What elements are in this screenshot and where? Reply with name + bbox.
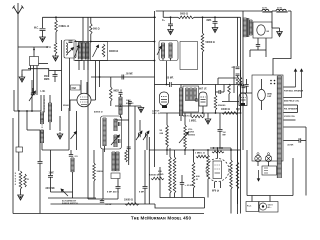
resistor R25 on top <box>196 155 208 158</box>
wire <box>110 77 112 87</box>
svg-text:FOR MAG. SPEAKER: FOR MAG. SPEAKER <box>284 90 304 93</box>
wire top bus left <box>43 16 156 18</box>
svg-text:Tʜᴇ MᴄMᴜʀᴍᴀɴ Mᴏᴅᴇʟ 450: Tʜᴇ MᴄMᴜʀᴍᴀɴ Mᴏᴅᴇʟ 450 <box>131 216 192 221</box>
wire left bus <box>12 118 14 214</box>
wire <box>228 94 230 102</box>
wire <box>104 146 106 152</box>
svg-text:8 MF.: 8 MF. <box>139 192 145 194</box>
svg-text:GB: GB <box>232 67 236 69</box>
svg-text:8MF.: 8MF. <box>207 20 212 22</box>
junction <box>99 76 101 78</box>
r.f. transformer row bottom wire <box>75 60 155 62</box>
wire <box>69 58 71 108</box>
wire <box>20 189 22 194</box>
pilot lamp P1 <box>255 155 261 161</box>
wave trap coil L1 <box>66 43 68 55</box>
capacitor C18 .02 <box>219 113 221 129</box>
secondary coil L10 <box>114 119 117 131</box>
wire <box>61 40 63 111</box>
wire <box>72 172 74 198</box>
label V1 box <box>71 85 81 90</box>
tube V7 6X5 <box>258 89 266 100</box>
coil tail marks <box>162 58 164 61</box>
wire <box>272 27 280 29</box>
wire <box>40 95 42 111</box>
svg-text:8 MF. 450 V.: 8 MF. 450 V. <box>107 191 119 194</box>
svg-text:40000 Ω: 40000 Ω <box>94 111 103 114</box>
capacitor C16 <box>236 67 240 69</box>
wire <box>184 149 186 155</box>
wire <box>219 131 221 148</box>
wire bus <box>82 17 84 41</box>
wire long bus y204 <box>51 203 156 205</box>
resistor R12 <box>228 84 231 94</box>
r.f. coil L2 <box>49 95 51 103</box>
wire <box>261 79 263 89</box>
wire <box>301 140 306 142</box>
wire <box>217 148 219 159</box>
wire screen dropper <box>202 17 204 33</box>
bottom coil L13 <box>116 152 119 171</box>
junction <box>213 147 215 149</box>
dial lamp feed arrows <box>294 69 296 87</box>
coil L16 <box>186 88 189 101</box>
coil L17 <box>190 88 193 101</box>
capacitor osc pad <box>128 102 132 104</box>
lamp socket box <box>262 166 277 175</box>
svg-text:2 MEG. Ω: 2 MEG. Ω <box>59 25 70 28</box>
r.f. coil L7 <box>86 43 89 60</box>
capacitor C8 <box>119 122 120 126</box>
wire plate V1 <box>91 99 96 101</box>
wire <box>217 78 219 85</box>
svg-text:20000: 20000 <box>97 171 104 173</box>
svg-text:10 H.: 10 H. <box>277 8 283 10</box>
tube V4 6Q7 <box>239 93 247 106</box>
junction row <box>14 110 41 112</box>
speaker assembly box <box>252 75 283 161</box>
wire <box>257 162 259 166</box>
wire <box>43 95 45 112</box>
svg-text:VOICE COIL: VOICE COIL <box>284 116 296 118</box>
primary coil L9 <box>103 118 106 146</box>
resistor R6 <box>110 87 113 101</box>
wire stub <box>83 61 85 71</box>
svg-text:1 MF.: 1 MF. <box>49 173 55 175</box>
padder capacitor C3 <box>31 93 35 95</box>
ground C11 <box>168 28 174 35</box>
capacitor osc <box>119 93 123 95</box>
capacitor C2 350 mmf <box>53 75 58 77</box>
switch arrow <box>61 189 68 196</box>
wire <box>139 120 141 131</box>
svg-text:2.5: 2.5 <box>75 156 79 158</box>
svg-text:5000 Ω: 5000 Ω <box>180 13 188 16</box>
wire <box>48 197 96 199</box>
svg-text:1 MEG. Ω: 1 MEG. Ω <box>195 153 205 155</box>
band switch box <box>30 57 39 66</box>
rectifier tube V6 <box>257 25 265 35</box>
ground bottom left <box>18 194 24 200</box>
capacitor C5 <box>69 155 73 157</box>
svg-text:Ω: Ω <box>196 179 198 181</box>
shield can box <box>180 42 198 70</box>
resistor R11 <box>215 85 217 96</box>
wire <box>18 152 20 171</box>
wire <box>242 11 244 150</box>
wire <box>90 17 92 23</box>
svg-text:10000 Ω: 10000 Ω <box>124 200 133 202</box>
capacitor C14 <box>219 90 221 94</box>
wire <box>193 188 195 198</box>
svg-text:0: 0 <box>15 181 17 183</box>
power box <box>259 202 278 213</box>
wire <box>36 66 38 96</box>
wire <box>39 130 41 161</box>
svg-text:C₄: C₄ <box>162 20 165 22</box>
wire <box>59 116 61 131</box>
wire <box>144 188 146 204</box>
wire <box>68 108 70 150</box>
svg-text:10000 Ω: 10000 Ω <box>221 109 230 111</box>
wire <box>215 110 217 113</box>
wire <box>166 147 168 155</box>
wire heater legs <box>214 182 216 189</box>
fuse box <box>246 202 259 212</box>
wire main bottom bus <box>13 213 204 215</box>
switch box left <box>16 147 23 152</box>
cathode resistor V5 <box>212 151 224 153</box>
resistor R24 600 ohm <box>193 150 195 162</box>
wire <box>230 189 232 214</box>
wire <box>50 177 52 192</box>
wire <box>271 11 273 28</box>
wire <box>249 50 251 57</box>
ground rectifier <box>279 28 281 31</box>
wire <box>76 111 78 150</box>
volume arrow <box>179 132 189 143</box>
wire <box>284 86 296 88</box>
trimmer capacitor <box>139 133 141 137</box>
filter capacitor C20 8mf 450v <box>117 179 119 187</box>
wire stub <box>87 61 89 71</box>
tube V2 6K7 i.f. <box>160 92 169 106</box>
resistor R8 <box>125 150 128 162</box>
svg-text:Ω: Ω <box>27 179 29 181</box>
resistor R16 10000 <box>222 112 238 115</box>
wire <box>39 163 41 213</box>
wire grid <box>31 80 33 111</box>
svg-text:.05 MF.: .05 MF. <box>126 74 134 76</box>
svg-text:0: 0 <box>15 176 17 178</box>
wire <box>272 10 276 12</box>
capacitor C4 <box>38 162 43 164</box>
wire <box>87 42 89 200</box>
wire <box>190 113 192 117</box>
coil L3 lower section <box>40 130 43 143</box>
wire <box>86 82 88 94</box>
resistor R17 50000 <box>166 113 168 125</box>
svg-text:110 V.: 110 V. <box>268 205 274 207</box>
power transformer T4 winding <box>243 18 246 37</box>
wire stub <box>78 61 80 71</box>
svg-text:000: 000 <box>160 133 164 135</box>
wire <box>134 106 136 204</box>
ground wave coil <box>57 132 63 139</box>
output section box <box>160 167 205 198</box>
wire <box>207 179 209 198</box>
svg-text:CONT.: CONT. <box>188 132 195 134</box>
svg-text:6K7 I.F.: 6K7 I.F. <box>199 89 207 91</box>
wire bus y199 <box>88 198 118 200</box>
svg-text:0: 0 <box>15 184 17 186</box>
padder coil L4 <box>71 158 74 172</box>
capacitor C19 .25mf <box>181 175 183 183</box>
ground antenna switch <box>22 66 31 77</box>
svg-text:OSC. ②: OSC. ② <box>152 112 160 115</box>
power transformer core <box>247 18 249 37</box>
junction <box>154 41 156 43</box>
capacitor C22 .01 <box>101 199 103 201</box>
resistor R21 <box>237 150 239 162</box>
resistor R7 20000 <box>93 163 96 181</box>
resistor R9 5000 ohm series <box>178 16 194 19</box>
socket strip dense <box>277 76 281 178</box>
trimmer arrow T2 <box>111 135 120 145</box>
capacitor C12 8mf <box>214 16 216 18</box>
svg-text:600: 600 <box>196 176 200 178</box>
trimmer capacitor 2 <box>146 133 148 137</box>
wire <box>93 150 95 163</box>
filter choke L20 <box>262 9 269 11</box>
wire osc row <box>115 105 141 107</box>
resistor R13 <box>236 77 239 86</box>
capacitor C15 <box>242 86 246 88</box>
bias resistor R3 <box>19 171 22 189</box>
osc coil L15 <box>169 43 172 58</box>
svg-text:L.W.: L.W. <box>41 91 46 93</box>
wire right edge <box>305 127 307 196</box>
svg-text:0: 0 <box>42 124 44 126</box>
trimmer arrow left can <box>75 45 80 57</box>
svg-text:50: 50 <box>160 130 163 132</box>
wire cathode V1 <box>70 100 77 111</box>
wave trap box <box>64 40 76 58</box>
coil L5 <box>78 43 81 60</box>
rectifier box <box>253 22 272 38</box>
wire <box>210 147 231 149</box>
ground R2 <box>53 54 59 61</box>
wire <box>247 195 293 197</box>
wire <box>115 119 129 121</box>
svg-text:MF.: MF. <box>223 135 227 137</box>
right can box <box>91 42 108 61</box>
svg-text:250000: 250000 <box>218 105 226 107</box>
a.v.c. bus <box>160 112 241 114</box>
junction <box>166 84 168 86</box>
wire <box>284 119 296 121</box>
wire <box>128 149 130 160</box>
capacitor C11 and ground <box>170 16 172 18</box>
wire <box>99 61 101 87</box>
svg-text:80: 80 <box>267 31 270 33</box>
svg-text:ACTUATED BY: ACTUATED BY <box>62 200 77 203</box>
coil L3 upper section <box>40 112 43 124</box>
wire bus right segment <box>163 16 178 18</box>
wire <box>27 129 40 131</box>
resistor R15 1 meg <box>191 115 204 118</box>
wire <box>42 149 69 151</box>
resistor R3b <box>24 174 27 187</box>
wire <box>204 198 206 209</box>
resistor R23 tall <box>174 150 176 157</box>
wire verticals <box>233 66 235 93</box>
svg-text:60 ~: 60 ~ <box>268 207 273 209</box>
wire <box>251 196 253 202</box>
resistor R27 10000 in bus <box>125 203 139 206</box>
svg-text:400000 Ω: 400000 Ω <box>149 174 159 177</box>
capacitor C13 .05 <box>155 84 170 86</box>
i.f. can B <box>183 86 199 112</box>
wire <box>284 97 302 99</box>
tube V5 6F6 dashed envelope <box>206 159 229 182</box>
wire <box>181 184 183 197</box>
wire <box>87 17 89 41</box>
svg-text:VOL.: VOL. <box>188 129 193 131</box>
wire <box>128 100 130 165</box>
wire <box>120 115 122 119</box>
wire <box>257 46 259 50</box>
coil L18 <box>194 88 197 101</box>
resistor R10 50000 <box>201 33 204 52</box>
wire <box>17 47 19 111</box>
wire <box>218 77 238 79</box>
junction <box>240 84 242 86</box>
resistor R14 <box>239 77 242 86</box>
wire <box>284 112 298 114</box>
wire right drop <box>273 11 291 75</box>
svg-text:Fu-1: Fu-1 <box>247 206 252 208</box>
wire <box>95 61 97 100</box>
wire <box>102 149 104 199</box>
secondary coil L11 <box>114 135 117 147</box>
svg-text:0: 0 <box>42 127 44 129</box>
wire <box>237 76 239 77</box>
wire <box>18 111 20 147</box>
svg-text:600 KC.: 600 KC. <box>126 103 134 105</box>
svg-text:350: 350 <box>44 76 49 78</box>
wire <box>284 104 298 106</box>
svg-text:30000 Ω: 30000 Ω <box>109 50 118 53</box>
wire <box>26 111 28 130</box>
ground osc <box>138 106 144 113</box>
wire <box>223 85 225 93</box>
wire avc top <box>203 84 241 86</box>
wave trap cap <box>69 41 73 42</box>
svg-text:0: 0 <box>15 178 17 180</box>
wire <box>202 106 204 113</box>
r.f. transformer row top wire <box>75 41 155 43</box>
antenna coil L6 <box>82 43 85 60</box>
bottom coil L12 <box>112 152 115 171</box>
wire <box>180 85 182 89</box>
svg-text:50000 Ω: 50000 Ω <box>206 41 215 44</box>
pilot lamp P2 <box>265 155 271 161</box>
tuning arrow <box>29 91 36 101</box>
wire <box>240 70 242 77</box>
wire <box>42 17 44 28</box>
oscillator coil L8 <box>120 94 122 97</box>
wire <box>202 52 204 84</box>
i.f. transformer can T2 <box>101 116 122 149</box>
wire <box>237 86 239 214</box>
wire <box>39 63 49 65</box>
capacitor C24 .05 <box>246 79 248 85</box>
lower box corner <box>28 69 49 77</box>
resistor R19 <box>207 150 209 155</box>
filter choke L21 <box>276 9 286 11</box>
wire grid coupling <box>91 76 155 78</box>
svg-text:.05 MF.: .05 MF. <box>166 78 174 80</box>
switch stub <box>33 50 35 57</box>
svg-text:6F6 ③: 6F6 ③ <box>212 190 219 193</box>
capacitor C7 .05 mf <box>122 75 124 80</box>
svg-text:5: 5 <box>15 173 17 175</box>
terminal dots <box>270 80 272 82</box>
wire left verticals <box>13 90 15 111</box>
svg-text:1 MEG.: 1 MEG. <box>189 121 197 123</box>
power plug P3 <box>259 203 266 210</box>
svg-text:500 Ω: 500 Ω <box>93 28 100 31</box>
oscillator transformer can T3 <box>159 41 178 61</box>
capacitor C23 <box>257 38 259 45</box>
svg-text:.02: .02 <box>223 132 227 134</box>
trimmer arrow right can <box>93 45 99 57</box>
svg-text:CAP: CAP <box>267 95 272 98</box>
wire <box>55 32 57 42</box>
resistor R22 250000 tall <box>169 148 171 157</box>
wire <box>237 17 239 66</box>
ground avc <box>205 117 211 124</box>
capacitor C9 <box>119 139 120 143</box>
capacitor C17 <box>236 74 240 76</box>
svg-text:000Ω: 000Ω <box>158 174 164 176</box>
connector box below coils <box>111 173 120 179</box>
trimmer arrow wave trap <box>68 48 74 54</box>
wire <box>33 66 35 96</box>
junction <box>90 41 92 43</box>
wire <box>49 70 62 72</box>
svg-text:#2 A: #2 A <box>46 46 51 49</box>
filter capacitor C21 8mf <box>144 150 146 187</box>
volume control R18 <box>184 113 186 125</box>
wire <box>292 158 294 196</box>
resistor R1 2 meg <box>55 17 57 20</box>
svg-text:10 H.: 10 H. <box>262 8 268 10</box>
wire <box>148 137 150 204</box>
resistor R20 <box>230 148 232 160</box>
svg-text:AND FIELD COIL: AND FIELD COIL <box>284 100 300 103</box>
wire top bus B plus <box>156 10 262 12</box>
ground C12 <box>212 26 218 33</box>
wire <box>49 122 51 130</box>
resistor R2 <box>54 42 57 54</box>
wire <box>237 189 239 204</box>
wire long vertical <box>154 11 156 167</box>
antenna <box>13 4 24 47</box>
wire <box>246 86 248 93</box>
wire step <box>155 204 205 208</box>
